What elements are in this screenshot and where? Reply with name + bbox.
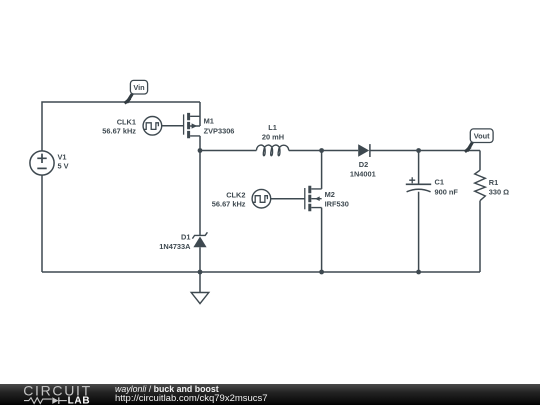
- svg-text:L1: L1: [268, 123, 277, 132]
- svg-text:C1: C1: [435, 178, 444, 187]
- footer text: [115, 385, 219, 394]
- svg-text:1N4733A: 1N4733A: [159, 242, 191, 251]
- svg-text:56.67 kHz: 56.67 kHz: [102, 127, 136, 136]
- junction D1 anode / ground: [198, 270, 203, 275]
- svg-text:330 Ω: 330 Ω: [489, 188, 509, 197]
- ground: [191, 293, 209, 304]
- wire CLK1 output to M1 gate: [162, 125, 184, 127]
- svg-text:D2: D2: [359, 160, 368, 169]
- junction C1 bottom on bottom rail: [416, 270, 421, 275]
- voltage source V1: [30, 151, 54, 175]
- svg-text:D1: D1: [181, 233, 190, 242]
- svg-text:56.67 kHz: 56.67 kHz: [212, 200, 246, 209]
- svg-text:ZVP3306: ZVP3306: [204, 127, 235, 136]
- wire left bottom V1 to bottom rail: [41, 175, 43, 272]
- wire bottom rail: [42, 271, 480, 273]
- svg-text:900 nF: 900 nF: [435, 188, 459, 197]
- junction M2 drain on mid rail: [319, 148, 324, 153]
- diode D2 (1N4001): [358, 144, 369, 156]
- junction C1 top on mid rail: [416, 148, 421, 153]
- inductor L1: [256, 145, 288, 156]
- wire right R1 branch: [479, 151, 481, 273]
- svg-text:LAB: LAB: [68, 395, 91, 405]
- node flag Vin: [125, 80, 148, 103]
- svg-text:1N4001: 1N4001: [350, 169, 376, 178]
- junction M2 source on bottom rail: [319, 270, 324, 275]
- svg-text:R1: R1: [489, 178, 498, 187]
- junction M1 drain / L1 / D1: [198, 148, 203, 153]
- svg-text:20 mH: 20 mH: [262, 132, 284, 141]
- svg-text:IRF530: IRF530: [325, 199, 349, 208]
- svg-text:5 V: 5 V: [58, 162, 69, 171]
- transistor M2 (NMOS IRF530): [305, 151, 322, 273]
- wire ground stub: [199, 272, 201, 293]
- wire D1 branch: [199, 151, 201, 273]
- svg-text:CLK1: CLK1: [117, 118, 136, 127]
- footer bar: [0, 384, 540, 405]
- wire top from V1 to M1 source: [42, 102, 200, 151]
- capacitor C1 (900 nF): [406, 177, 431, 192]
- node flag Vout: [465, 129, 493, 152]
- svg-text:CLK2: CLK2: [226, 190, 245, 199]
- svg-text:M1: M1: [204, 116, 214, 125]
- svg-text:Vin: Vin: [133, 83, 145, 92]
- zener diode D1 (1N4733A): [193, 237, 206, 248]
- wire mid rail D2 cathode to Vout corner: [371, 150, 481, 152]
- clock source CLK2: [252, 189, 271, 208]
- wire C1 branch: [418, 151, 420, 273]
- svg-text:V1: V1: [58, 152, 67, 161]
- wire CLK2 output to M2 gate: [271, 198, 305, 200]
- transistor M1 (PMOS ZVP3306): [184, 102, 200, 151]
- resistor R1 (330 ohm): [475, 170, 486, 201]
- svg-text:Vout: Vout: [474, 132, 490, 141]
- clock source CLK1: [143, 117, 162, 136]
- wire mid rail M1 drain to D2 anode: [200, 150, 358, 152]
- CircuitLab logo: [0, 384, 100, 405]
- svg-text:M2: M2: [325, 190, 335, 199]
